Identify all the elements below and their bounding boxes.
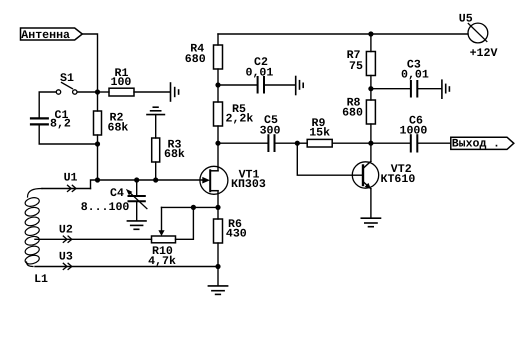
svg-text:S1: S1 [60,72,74,85]
node gate line / R2 column [95,177,100,182]
variable capacitor C4 [136,180,138,196]
resistor R9 [297,142,307,144]
wire antenna tip to corner [82,34,97,92]
svg-text:+12V: +12V [470,47,498,60]
switch S1 [56,90,60,94]
capacitor C2 row [218,84,257,86]
ground (rotated) right of R1 [170,83,172,101]
potentiometer R10 wiper [161,207,163,230]
svg-text:680: 680 [185,53,206,66]
node R9/R8/C6/VT2 collector [368,141,373,146]
resistor R5 [217,85,219,102]
node C1/R2 junction [95,141,100,146]
capacitor C3 row [371,88,410,90]
node R5/C5/VT1 drain [215,141,220,146]
svg-text:100: 100 [111,76,132,89]
ground (rotated) right of C2 [295,77,297,95]
inverted ground above R3 [153,106,158,108]
svg-text:U2: U2 [59,223,73,236]
svg-text:2,2k: 2,2k [226,112,254,125]
wire U1 line from coil [42,188,91,190]
wire VT2 base path from R9 node [297,143,352,175]
svg-text:КТ610: КТ610 [381,173,416,186]
svg-text:8...100: 8...100 [81,201,130,214]
svg-text:8,2: 8,2 [50,117,71,130]
resistor R7 [370,34,372,52]
node R3 bottom on gate line [153,177,158,182]
svg-text:0,01: 0,01 [246,66,274,79]
node VT1 source / R6 [215,205,220,210]
VT1 drain lead [217,143,219,171]
svg-text:68k: 68k [108,122,129,135]
svg-text:Выход: Выход [452,137,487,150]
resistor R4 [217,34,219,45]
svg-text:Антенна: Антенна [21,29,70,42]
node C4 tap on gate line [134,177,139,182]
connector U5 [468,23,488,43]
svg-text:430: 430 [226,228,247,241]
ground (rotated) right of C3 [441,80,443,98]
ground below C4 [127,220,146,222]
svg-text:75: 75 [349,60,363,73]
wire S1 right contact to node [77,91,97,93]
VT1 source lead [217,191,219,208]
antenna flag label [21,28,83,40]
svg-text:C4: C4 [110,187,124,200]
resistor R2 [97,92,99,111]
wire R10 right terminal up to source row [176,207,194,239]
svg-text:.: . [493,137,500,150]
node R10 terminal on source line [191,205,196,210]
wire gate line y=180 [91,180,203,189]
svg-text:U3: U3 [59,251,73,264]
node antenna/S1/R1/R2 [95,89,100,94]
svg-text:КП303: КП303 [231,178,266,191]
svg-text:680: 680 [342,107,363,120]
resistor R3 [155,115,157,138]
node R7 on +12V rail [368,31,373,36]
wire U2 line [35,238,152,240]
ground below R6 [208,285,227,287]
svg-text:L1: L1 [34,273,48,286]
JFET VT1 [200,166,228,194]
resistor R1 [98,91,110,93]
ground below VT2 [361,217,380,219]
wire VT1 source row y=207.4 [162,206,219,208]
svg-text:0,01: 0,01 [401,69,429,82]
svg-text:15k: 15k [309,126,330,139]
wire C1 bottom to node [39,125,97,144]
svg-text:4,7k: 4,7k [148,255,176,268]
capacitor C6 [371,142,410,144]
node C5/R9/VT2 base [295,141,300,146]
node R4/C2/R5 [215,82,220,87]
wire U3 line [35,266,218,268]
output flag label [451,137,514,149]
resistor R6 [217,207,219,219]
wire R6 bottom to ground [217,267,219,286]
U1 tap chevrons [68,185,72,191]
top supply rail [218,33,468,35]
svg-text:68k: 68k [164,148,185,161]
svg-text:U5: U5 [459,12,473,25]
svg-text:1000: 1000 [400,125,428,138]
node R7/C3/R8 [368,86,373,91]
svg-text:300: 300 [260,124,281,137]
svg-text:U1: U1 [64,172,78,185]
transistor VT2 [352,162,378,188]
wire S1 row left to C1 top [39,92,56,118]
mid row y=143.2 : C5 [218,142,268,144]
capacitor C1 [31,117,48,119]
node U3 line / R6 bottom [215,264,220,269]
resistor R8 [370,89,372,100]
inductor L1 [28,189,43,198]
